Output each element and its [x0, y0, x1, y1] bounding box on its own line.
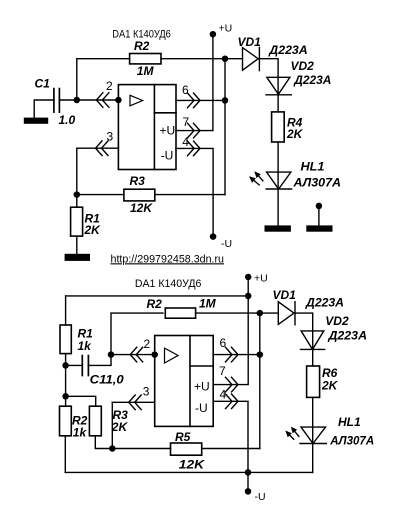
- pin label 7 (bottom): [219, 364, 226, 378]
- wire output rail vertical: [224, 59, 226, 195]
- pin 7 chevron: [188, 123, 201, 138]
- wire pin 7 to +U rail (bottom): [213, 296, 248, 385]
- pin 6 junction dot (bottom): [257, 351, 264, 358]
- wire C1 left plate to ground: [34, 100, 54, 118]
- -U terminal: [210, 233, 217, 240]
- LED HL1 type АЛ307А: [292, 176, 341, 190]
- wire node A2 to C1: [66, 364, 83, 366]
- wire node B2 to R2: [65, 396, 67, 406]
- wire HL1 to bottom rail: [312, 444, 314, 473]
- resistor R2 (1M): [130, 54, 161, 64]
- svg-text:2: 2: [144, 337, 151, 351]
- resistor R6 label: [322, 366, 338, 380]
- -U label: [221, 238, 232, 250]
- svg-text:3: 3: [107, 129, 114, 143]
- wire node A2 to node B2: [65, 365, 67, 396]
- wire pin 4 to -U rail (bottom): [213, 401, 248, 472]
- wire left rail to R1: [65, 296, 67, 325]
- pin 4 chevron: [188, 141, 201, 156]
- resistor R1 label: [78, 327, 94, 341]
- svg-text:2K: 2K: [321, 379, 339, 393]
- resistor R2 (1k, bottom): [60, 406, 72, 436]
- svg-text:2: 2: [106, 79, 113, 93]
- capacitor C1 label: [35, 77, 51, 91]
- svg-text:12K: 12K: [130, 201, 153, 215]
- wire pin 3: [77, 147, 119, 149]
- svg-text:2K: 2K: [111, 420, 129, 434]
- LED HL1 emission arrows (bottom): [290, 432, 299, 440]
- pin 2 junction dot: [115, 97, 122, 104]
- wire R3 bottom to node: [95, 436, 112, 449]
- ground (under R1): [65, 254, 90, 261]
- svg-text:VD1: VD1: [238, 35, 262, 49]
- wire C1 to node A: [59, 99, 76, 101]
- node B2 (R2/R3 junction): [62, 393, 69, 400]
- svg-text:+U: +U: [219, 23, 233, 35]
- pin label 2: [106, 79, 113, 93]
- wire node to R5: [112, 448, 170, 450]
- pin 7 chevron (bottom): [226, 377, 239, 392]
- op-amp -U pin text: [161, 148, 174, 162]
- resistor R6 (2K): [307, 366, 320, 397]
- pin 6 chevron: [188, 93, 201, 108]
- diode VD1 type Д223А: [268, 43, 307, 57]
- resistor R1 label: [85, 212, 101, 226]
- pin 2 junction dot (bottom): [151, 351, 158, 358]
- pin label 3: [107, 129, 114, 143]
- -U label (bottom): [255, 491, 266, 503]
- svg-text:HL1: HL1: [338, 415, 361, 429]
- wire bottom rail: [65, 471, 312, 473]
- pin label 4: [182, 135, 189, 149]
- ground terminal dot: [316, 203, 323, 210]
- wire R6 to HL1 (bottom): [312, 397, 314, 427]
- diode VD2 label: [291, 59, 315, 73]
- diode VD2 (Д223А, bottom): [301, 331, 325, 350]
- resistor R1 value 1k: [78, 339, 93, 353]
- +U terminal (bottom): [245, 274, 252, 281]
- wire R1 to ground: [76, 236, 78, 254]
- svg-text:VD2: VD2: [291, 59, 315, 73]
- resistor R3 (2K, bottom): [89, 406, 101, 436]
- op-amp -U pin text (bottom): [195, 401, 208, 415]
- resistor R5 (12K): [171, 443, 202, 455]
- svg-text:+U: +U: [160, 124, 176, 138]
- wire R2 to bottom rail: [64, 436, 66, 473]
- ground (under C1): [24, 118, 48, 124]
- pin 4 chevron (bottom): [226, 394, 239, 409]
- diode VD1 (Д223А): [243, 48, 260, 71]
- svg-text:-U: -U: [221, 238, 232, 250]
- resistor R2 value 1M: [199, 296, 217, 310]
- wire C1 to pin2 node: [88, 355, 111, 366]
- resistor R3 label: [113, 408, 129, 422]
- node top rail / +U junction: [245, 293, 252, 300]
- ground (right, with terminal): [306, 225, 332, 231]
- site url text: [111, 253, 225, 265]
- svg-text:C1: C1: [35, 77, 51, 91]
- pin label 2 (bottom): [144, 337, 151, 351]
- resistor R3 value 12K: [130, 201, 153, 215]
- wire VD1 to VD2 (bottom): [295, 313, 313, 331]
- resistor R2 label (1M): [147, 297, 163, 311]
- resistor R4 value 2K: [286, 127, 304, 141]
- LED HL1 emission arrows: [254, 176, 263, 185]
- resistor R1 (2K): [71, 207, 83, 236]
- resistor R2 (1M, bottom): [165, 308, 195, 318]
- svg-text:R2: R2: [147, 297, 163, 311]
- ground (under HL1): [265, 225, 291, 231]
- wire node B to R3: [77, 194, 124, 196]
- op-amp +U pin text: [160, 124, 176, 138]
- svg-text:7: 7: [219, 364, 226, 378]
- svg-text:7: 7: [183, 115, 190, 129]
- svg-text:Д223А: Д223А: [305, 295, 344, 309]
- wire node A up to R2: [77, 59, 130, 100]
- node output junction (bottom): [257, 310, 264, 317]
- node bottom rail / -U junction: [245, 469, 252, 476]
- svg-text:DA1 К140УД6: DA1 К140УД6: [135, 278, 202, 290]
- op-amp +U pin text (bottom): [194, 380, 210, 394]
- svg-text:R2: R2: [134, 39, 150, 53]
- node A2 (R1/C1 junction): [62, 362, 69, 369]
- svg-text:1M: 1M: [137, 64, 155, 78]
- diode VD2 type Д223А (bottom): [327, 329, 367, 343]
- LED HL1 (АЛ307А, bottom): [300, 427, 326, 443]
- op-amp U1 body: [118, 85, 176, 170]
- pin label 6: [182, 83, 189, 97]
- pin label 7: [183, 115, 190, 129]
- -U terminal (bottom): [245, 488, 252, 495]
- svg-text:4: 4: [182, 135, 189, 149]
- wire pin 4 to -U: [176, 148, 213, 236]
- svg-text:АЛ307А: АЛ307А: [329, 434, 374, 448]
- diode VD1 label: [238, 35, 262, 49]
- LED HL1 (АЛ307А): [266, 172, 291, 189]
- wire pin 7 to +U: [176, 34, 213, 130]
- resistor R5 label: [175, 430, 191, 444]
- LED HL1 label (bottom): [338, 415, 361, 429]
- +U terminal: [210, 31, 217, 38]
- svg-text:R5: R5: [175, 430, 191, 444]
- diode VD2 label (bottom): [325, 314, 349, 328]
- svg-text:http://299792458.3dn.ru: http://299792458.3dn.ru: [111, 253, 225, 265]
- wire node B2 to R3 top: [66, 396, 96, 406]
- +U label (bottom): [254, 273, 268, 285]
- wire R5 to output rail: [202, 448, 260, 450]
- resistor R1 (1k, bottom): [60, 325, 71, 354]
- wire output node to VD1 (bottom): [260, 312, 279, 314]
- svg-text:АЛ307А: АЛ307А: [292, 176, 341, 190]
- resistor R3 (12K): [124, 189, 155, 201]
- resistor R4 label: [287, 116, 303, 130]
- wire VD2 to R4: [277, 95, 279, 112]
- resistor R2 label: [134, 39, 150, 53]
- wire pin 3 (bottom): [112, 401, 154, 403]
- resistor R6 value 2K: [321, 379, 339, 393]
- node output junction (R2/VD1/rail): [222, 55, 229, 62]
- wire pin 3 down to node B: [76, 148, 78, 194]
- diode VD2 type Д223А: [293, 73, 331, 87]
- wire pin 6 output: [176, 99, 225, 101]
- resistor R1 value 2K: [84, 223, 102, 237]
- pin label 4 (bottom): [220, 388, 227, 402]
- diode VD2 (Д223А): [266, 77, 291, 95]
- pin 6 chevron (bottom): [226, 347, 239, 362]
- op-amp DA1 label (top circuit): [112, 28, 171, 40]
- wire R1 from node B: [76, 195, 78, 208]
- op-amp DA1 label (bottom circuit): [135, 278, 202, 290]
- LED HL1 type АЛ307А (bottom): [329, 434, 374, 448]
- svg-text:1k: 1k: [78, 339, 93, 353]
- wire +U stub: [247, 277, 249, 296]
- svg-text:C11,0: C11,0: [90, 373, 124, 387]
- svg-text:-U: -U: [255, 491, 266, 503]
- diode VD1 (Д223А, bottom): [278, 302, 295, 325]
- pin 2 chevron: [96, 93, 109, 108]
- svg-text:1M: 1M: [199, 296, 217, 310]
- svg-text:R3: R3: [130, 174, 146, 188]
- wire R3 to output rail: [155, 194, 225, 196]
- wire pin 3 down: [111, 402, 113, 448]
- svg-text:VD2: VD2: [325, 314, 349, 328]
- svg-text:Д223А: Д223А: [293, 73, 331, 87]
- LED HL1 label: [301, 160, 325, 174]
- wire R4 to HL1: [277, 142, 279, 172]
- wire output node to VD1: [225, 58, 243, 60]
- wire VD2 to R6: [312, 349, 314, 366]
- pin 3 chevron: [96, 141, 109, 156]
- svg-text:+U: +U: [194, 380, 210, 394]
- node B (pin3/R3/R1 junction): [74, 191, 81, 198]
- svg-text:+U: +U: [254, 273, 268, 285]
- svg-text:12K: 12K: [179, 458, 206, 472]
- resistor R3 value 2K: [111, 420, 129, 434]
- wire terminal to ground: [318, 206, 320, 226]
- wire -U stub (bottom): [247, 472, 249, 491]
- capacitor C1 value 1.0: [59, 113, 76, 127]
- wire R2 to output node: [161, 58, 225, 60]
- capacitor C1 (bottom): [82, 356, 88, 376]
- svg-text:HL1: HL1: [301, 160, 325, 174]
- node pin2 branch junction: [108, 351, 115, 358]
- svg-text:1.0: 1.0: [59, 113, 76, 127]
- svg-text:6: 6: [220, 336, 227, 350]
- svg-text:2K: 2K: [84, 223, 102, 237]
- svg-text:1k: 1k: [73, 426, 88, 440]
- resistor R4 (2K): [272, 112, 285, 142]
- resistor R5 value 12K: [179, 458, 206, 472]
- op-amp U2 body: [155, 336, 214, 427]
- capacitor C1: [54, 89, 60, 113]
- diode VD1 label (bottom): [273, 288, 297, 302]
- wire VD1 to VD2: [259, 59, 278, 78]
- resistor R2 value 1M: [137, 64, 155, 78]
- svg-text:VD1: VD1: [273, 288, 297, 302]
- wire pin2 node up to R2 (1M): [111, 313, 163, 355]
- wire R2 to output node: [196, 312, 260, 314]
- op-amp U1 triangle: [130, 95, 143, 106]
- svg-text:4: 4: [220, 388, 227, 402]
- node pin3 / R5 junction: [109, 445, 116, 452]
- svg-text:2K: 2K: [286, 127, 304, 141]
- node A (C1 / R2 / pin2 junction): [74, 97, 81, 104]
- svg-text:3: 3: [143, 385, 150, 399]
- resistor R2 value 1k: [73, 426, 88, 440]
- op-amp U2 triangle: [165, 348, 179, 363]
- svg-text:Д223А: Д223А: [268, 43, 307, 57]
- wire output rail vertical (bottom): [259, 313, 261, 448]
- wire top rail: [66, 295, 249, 297]
- wire node A to pin 2: [77, 99, 119, 101]
- wire HL1 to ground: [277, 189, 279, 225]
- pin label 6 (bottom): [220, 336, 227, 350]
- pin 2 chevron (bottom): [130, 347, 143, 362]
- svg-text:6: 6: [182, 83, 189, 97]
- resistor R2 label: [72, 414, 88, 428]
- svg-text:Д223А: Д223А: [327, 329, 367, 343]
- diode VD1 type Д223А (bottom): [305, 295, 344, 309]
- resistor R3 label: [130, 174, 146, 188]
- capacitor C1 label and value C1 1,0: [90, 373, 124, 387]
- pin label 3 (bottom): [143, 385, 150, 399]
- pin 3 chevron (bottom): [129, 395, 142, 410]
- svg-text:-U: -U: [161, 148, 174, 162]
- wire pin 2 (bottom): [111, 354, 155, 356]
- wire R1 to node A2: [65, 354, 67, 366]
- pin 6 junction dot: [222, 97, 229, 104]
- svg-text:-U: -U: [195, 401, 208, 415]
- +U label: [219, 23, 233, 35]
- wire pin 6 (bottom): [213, 354, 260, 356]
